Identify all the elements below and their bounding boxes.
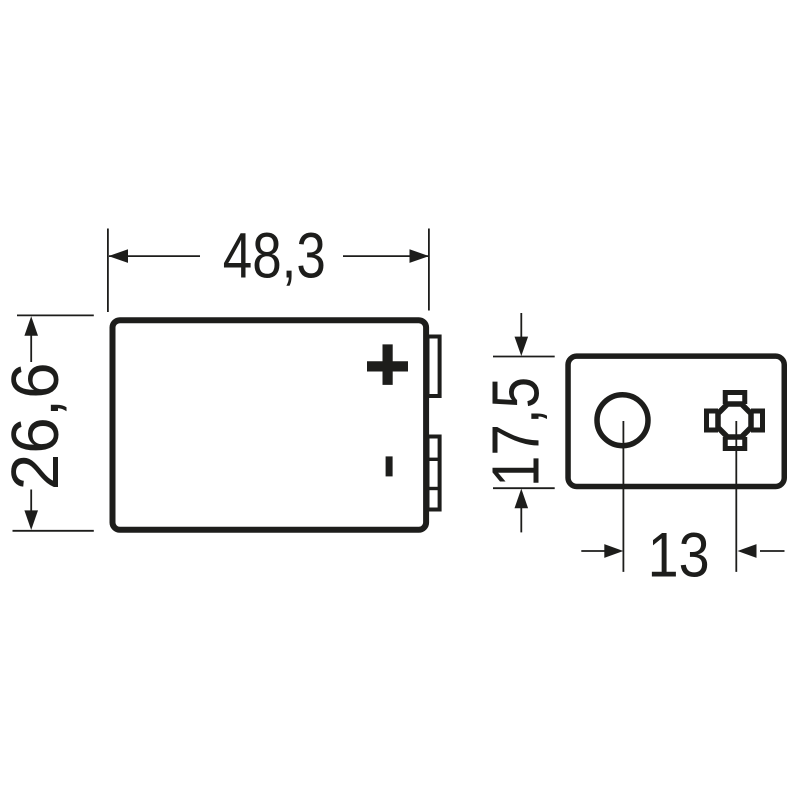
negative tab ridge line 1 [428, 458, 440, 461]
centre line of snap terminal [735, 421, 737, 572]
width dimension right arrowhead [410, 249, 430, 263]
snap terminal right ear [751, 411, 763, 430]
width dimension left extension line [107, 229, 109, 313]
height dimension line upper segment [30, 335, 32, 362]
positive terminal tab (side view) [428, 337, 440, 397]
negative terminal tab (side view) [428, 437, 440, 510]
snap terminal bottom ear [725, 437, 745, 449]
height dimension bottom extension line [13, 530, 94, 532]
width dimension line left segment [109, 255, 200, 257]
svg-text:48,3: 48,3 [223, 220, 326, 292]
svg-text:13: 13 [648, 520, 710, 590]
depth dimension bottom arrowhead [515, 489, 529, 509]
minus symbol [386, 456, 393, 476]
snap terminal top ear [725, 393, 745, 405]
depth dimension top tick line [493, 356, 555, 358]
depth dimension top arrowhead [515, 337, 529, 356]
terminal spacing right arrow shaft [760, 550, 785, 552]
svg-text:17,5: 17,5 [479, 377, 554, 487]
round female terminal [597, 395, 648, 446]
height dimension lower arrowhead [24, 510, 38, 530]
terminal spacing left arrowhead [604, 544, 623, 558]
depth dimension bottom tick line [493, 487, 555, 489]
connector end view outline [568, 356, 784, 486]
centre line of round terminal [622, 421, 624, 572]
height dimension top extension line [17, 314, 94, 316]
battery body outline (side view) [113, 320, 427, 530]
snap terminal left ear [707, 411, 719, 430]
plus symbol [367, 344, 408, 385]
terminal spacing left arrow shaft [581, 550, 605, 552]
height dimension line lower segment [30, 490, 32, 512]
width dimension right extension line [428, 229, 430, 311]
height dimension upper arrowhead [24, 316, 38, 336]
svg-text:26,6: 26,6 [0, 362, 73, 490]
depth dimension bottom arrow shaft [520, 507, 522, 532]
depth dimension top arrow shaft [520, 313, 522, 338]
negative tab ridge line 2 [428, 487, 440, 490]
width dimension line right segment [343, 255, 429, 257]
width dimension left arrowhead [109, 249, 129, 263]
terminal spacing right arrowhead [738, 544, 757, 558]
snap terminal octagon body [718, 404, 751, 437]
